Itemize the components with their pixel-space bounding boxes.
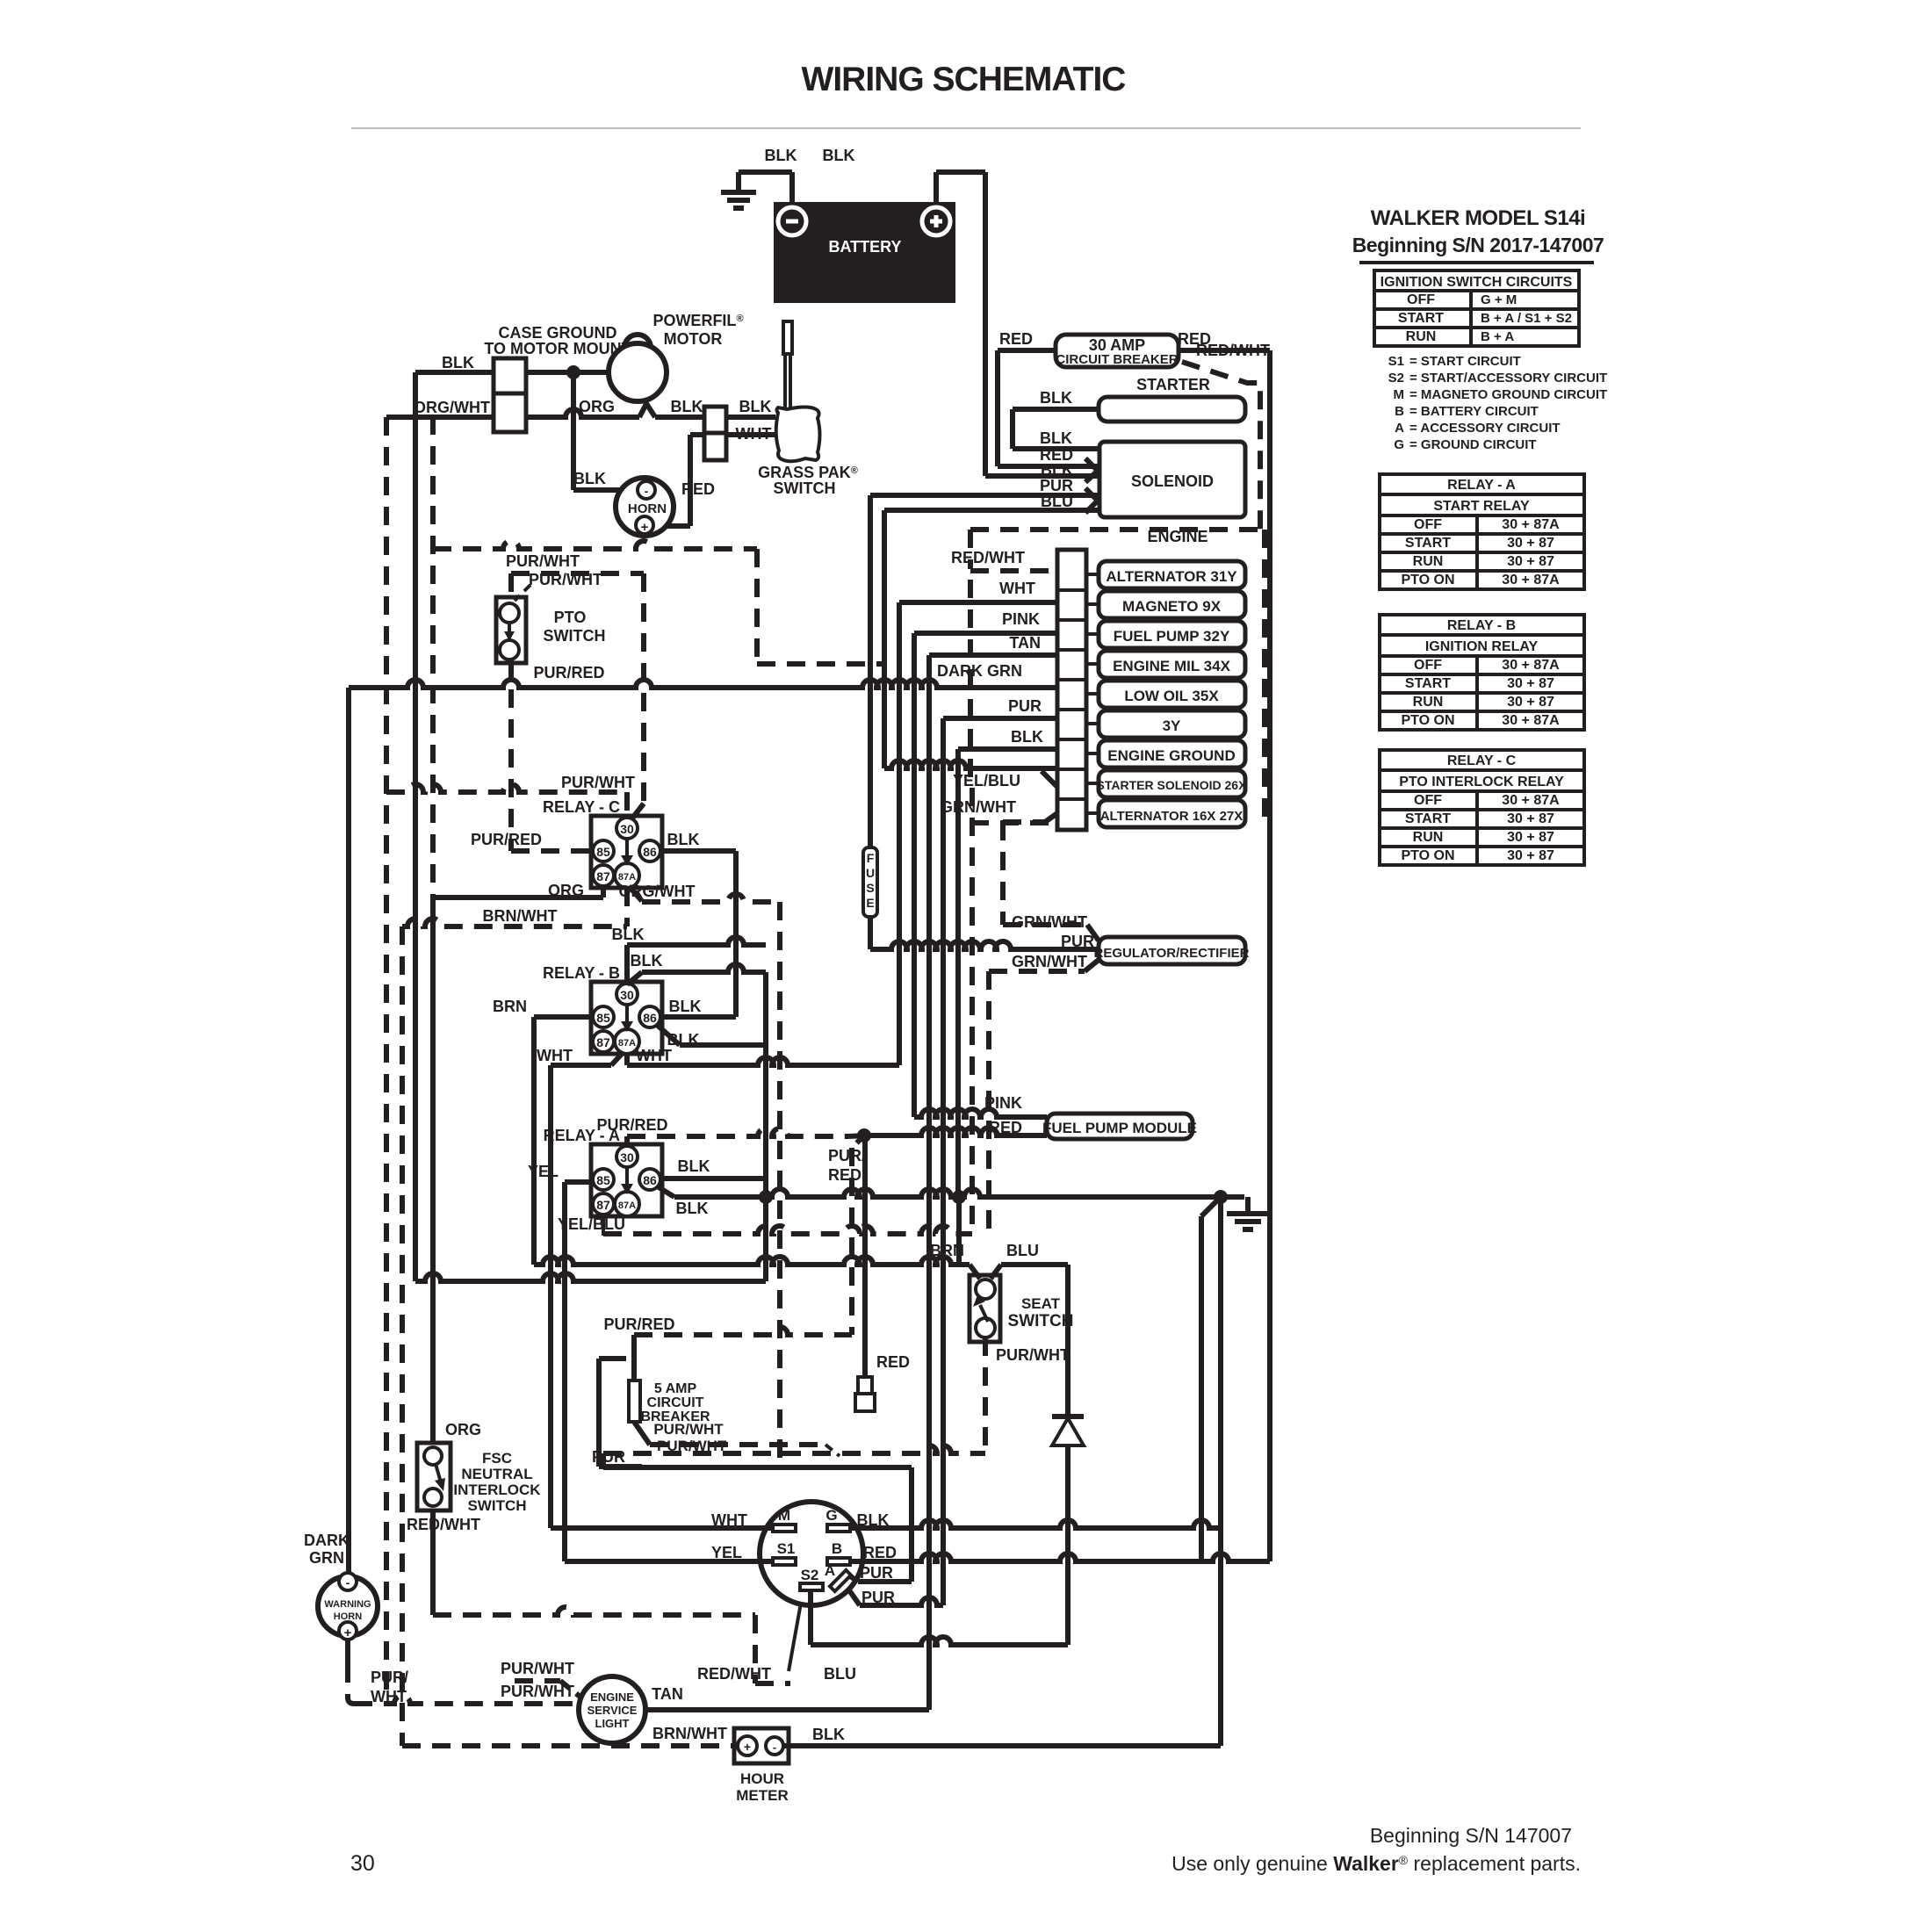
ignition switch	[760, 1502, 863, 1605]
svg-text:86: 86	[643, 845, 657, 859]
svg-text:87A: 87A	[618, 1200, 636, 1211]
svg-text:BLK: BLK	[442, 354, 474, 371]
svg-text:OFF: OFF	[1414, 517, 1442, 532]
wire BLU solenoid to engine starter-solenoid pin	[884, 508, 1099, 513]
relay B table	[1380, 615, 1584, 635]
svg-text:30 + 87: 30 + 87	[1507, 848, 1554, 863]
svg-text:87: 87	[596, 1035, 610, 1049]
svg-text:ORG: ORG	[445, 1421, 481, 1438]
wire RED horn positive	[688, 435, 693, 526]
engine pin box FUEL PUMP 32Y	[1099, 621, 1245, 648]
svg-text:YEL/BLU: YEL/BLU	[558, 1215, 625, 1233]
ignition switch circuits table	[1374, 270, 1579, 291]
svg-text:PUR/WHT: PUR/WHT	[501, 1683, 574, 1700]
svg-text:ORG: ORG	[579, 398, 615, 415]
svg-text:GRASS PAK®: GRASS PAK®	[758, 464, 858, 481]
svg-text:OFF: OFF	[1407, 292, 1435, 307]
svg-text:HORN: HORN	[628, 501, 667, 516]
wire ground bus to ignition RED row	[1201, 1197, 1221, 1216]
svg-text:WARNING: WARNING	[324, 1599, 371, 1610]
svg-text:ALTERNATOR 31Y: ALTERNATOR 31Y	[1106, 568, 1237, 585]
svg-text:OFF: OFF	[1414, 658, 1442, 673]
svg-text:PUR/RED: PUR/RED	[471, 831, 542, 848]
svg-text:86: 86	[643, 1011, 657, 1025]
harness dashed boundary	[433, 541, 757, 549]
svg-text:TAN: TAN	[652, 1685, 683, 1703]
svg-text:BLK: BLK	[678, 1157, 710, 1175]
svg-text:RUN: RUN	[1413, 554, 1444, 569]
svg-text:S2: S2	[1388, 371, 1404, 386]
svg-text:GRN/WHT: GRN/WHT	[1012, 953, 1087, 970]
svg-text:-: -	[773, 1741, 776, 1754]
svg-text:BLK: BLK	[765, 147, 797, 164]
svg-text:NEUTRAL: NEUTRAL	[461, 1466, 532, 1482]
svg-text:TAN: TAN	[1009, 634, 1041, 652]
svg-text:GRN/WHT: GRN/WHT	[1012, 913, 1087, 931]
svg-text:DARK GRN: DARK GRN	[937, 662, 1022, 680]
ignition terminal M	[773, 1525, 796, 1532]
engine pin box 3Y	[1099, 710, 1245, 738]
wire BLK to powerfil motor	[526, 370, 609, 375]
svg-text:RED: RED	[876, 1353, 910, 1371]
svg-text:BLK: BLK	[812, 1726, 845, 1743]
svg-text:IGNITION RELAY: IGNITION RELAY	[1425, 639, 1539, 654]
svg-text:SWITCH: SWITCH	[467, 1497, 526, 1514]
fuel pump module	[1047, 1114, 1193, 1139]
svg-text:BLK: BLK	[669, 998, 702, 1015]
svg-text:30 + 87A: 30 + 87A	[1502, 658, 1560, 673]
svg-text:ENGINE: ENGINE	[1147, 528, 1207, 545]
svg-text:30 + 87: 30 + 87	[1507, 811, 1554, 826]
svg-text:30 AMP: 30 AMP	[1089, 336, 1145, 354]
svg-text:PINK: PINK	[1002, 610, 1040, 628]
svg-text:RED: RED	[999, 330, 1033, 348]
fuse	[863, 847, 877, 917]
svg-text:= START CIRCUIT: = START CIRCUIT	[1409, 354, 1521, 369]
svg-text:85: 85	[596, 1011, 610, 1025]
svg-text:S1: S1	[777, 1540, 796, 1557]
ignition terminal G	[827, 1525, 850, 1532]
svg-text:S: S	[866, 881, 874, 895]
grass pak switch	[776, 407, 820, 462]
30 amp circuit breaker	[1056, 335, 1179, 367]
wire PUR solenoid to fuse	[870, 493, 1099, 498]
svg-text:RED/WHT: RED/WHT	[951, 549, 1025, 566]
svg-text:3Y: 3Y	[1163, 717, 1181, 734]
svg-text:RELAY - A: RELAY - A	[1447, 478, 1516, 493]
svg-text:TO MOTOR MOUNT: TO MOTOR MOUNT	[484, 340, 631, 357]
PTO switch	[496, 597, 526, 663]
svg-text:START: START	[1398, 311, 1444, 326]
svg-text:METER: METER	[736, 1787, 789, 1804]
hour meter	[734, 1728, 789, 1763]
svg-text:= MAGNETO GROUND CIRCUIT: = MAGNETO GROUND CIRCUIT	[1409, 387, 1607, 402]
engine pin box STARTER SOLENOID 26X	[1099, 770, 1245, 797]
svg-text:PUR/WHT: PUR/WHT	[653, 1421, 724, 1438]
svg-text:RED/WHT: RED/WHT	[407, 1516, 480, 1533]
svg-text:S2: S2	[801, 1567, 819, 1583]
svg-text:= START/ACCESSORY CIRCUIT: = START/ACCESSORY CIRCUIT	[1409, 371, 1607, 386]
svg-text:GRN/WHT: GRN/WHT	[941, 798, 1016, 816]
wire BLK battery negative to chassis ground	[789, 172, 795, 202]
svg-text:BLU: BLU	[824, 1665, 856, 1683]
svg-text:RED/WHT: RED/WHT	[1196, 342, 1270, 359]
svg-text:ENGINE: ENGINE	[590, 1690, 634, 1704]
battery	[774, 202, 955, 303]
svg-text:30 + 87A: 30 + 87A	[1502, 713, 1560, 728]
engine pin box ENGINE MIL 34X	[1099, 651, 1245, 678]
relay C table	[1380, 750, 1584, 770]
svg-text:RELAY - B: RELAY - B	[1447, 618, 1516, 633]
powerfil motor	[624, 335, 651, 350]
svg-text:PTO INTERLOCK RELAY: PTO INTERLOCK RELAY	[1399, 775, 1564, 789]
engine pin box ALTERNATOR 16X 27X	[1099, 800, 1245, 827]
wire BLK battery positive to solenoid	[934, 172, 939, 202]
svg-text:BLK: BLK	[1040, 389, 1072, 407]
svg-text:MOTOR: MOTOR	[664, 330, 723, 348]
svg-text:RELAY - B: RELAY - B	[543, 964, 620, 982]
horn	[616, 478, 674, 536]
svg-text:G: G	[1394, 437, 1404, 452]
svg-text:BLK: BLK	[1011, 728, 1043, 746]
svg-text:PTO: PTO	[554, 609, 587, 626]
earth ground symbol right	[1245, 1197, 1251, 1214]
svg-text:FSC: FSC	[482, 1450, 512, 1467]
ignition terminal A	[830, 1570, 851, 1591]
svg-text:BLK: BLK	[739, 398, 772, 415]
svg-text:BLK: BLK	[1040, 429, 1072, 447]
svg-text:PTO ON: PTO ON	[1401, 848, 1454, 863]
svg-text:30 + 87: 30 + 87	[1507, 536, 1554, 551]
ground bus	[766, 1189, 1244, 1197]
chassis ground symbol	[721, 190, 756, 195]
svg-text:RUN: RUN	[1406, 329, 1437, 344]
svg-text:BLU: BLU	[1006, 1242, 1039, 1259]
svg-text:LOW OIL 35X: LOW OIL 35X	[1124, 688, 1219, 704]
svg-text:30: 30	[620, 988, 634, 1002]
svg-text:BLK: BLK	[671, 398, 703, 415]
svg-text:PUR/WHT: PUR/WHT	[506, 552, 580, 570]
svg-text:FUEL PUMP 32Y: FUEL PUMP 32Y	[1114, 628, 1230, 645]
svg-text:PUR/: PUR/	[828, 1147, 866, 1164]
svg-text:30: 30	[620, 1150, 634, 1164]
svg-text:RED: RED	[828, 1166, 861, 1184]
svg-text:Beginning S/N 2017-147007: Beginning S/N 2017-147007	[1352, 234, 1604, 256]
svg-text:5 AMP: 5 AMP	[654, 1381, 697, 1396]
svg-text:RELAY - C: RELAY - C	[543, 798, 620, 816]
solenoid input chevrons	[1085, 458, 1098, 482]
svg-text:PUR/RED: PUR/RED	[533, 664, 604, 681]
junction PUR/RED	[857, 1128, 871, 1143]
svg-text:F: F	[867, 851, 875, 865]
svg-text:+: +	[641, 520, 649, 535]
svg-text:PTO ON: PTO ON	[1401, 713, 1454, 728]
svg-text:BATTERY: BATTERY	[829, 238, 902, 256]
svg-text:DARK: DARK	[304, 1532, 350, 1549]
diode	[1052, 1414, 1084, 1419]
battery positive terminal	[922, 207, 950, 235]
svg-text:G: G	[825, 1507, 837, 1524]
svg-text:BLK: BLK	[667, 831, 700, 848]
junction relay BLK to bus	[759, 1190, 773, 1204]
svg-text:Beginning S/N 147007: Beginning S/N 147007	[1370, 1824, 1572, 1847]
svg-text:A: A	[825, 1562, 835, 1579]
svg-text:BLK: BLK	[1041, 461, 1073, 479]
svg-text:B: B	[832, 1540, 842, 1557]
svg-text:RUN: RUN	[1413, 830, 1444, 845]
wire PINK to fuel pump module	[914, 1109, 1047, 1117]
svg-text:CASE GROUND: CASE GROUND	[498, 324, 616, 342]
svg-text:PUR/WHT: PUR/WHT	[561, 774, 635, 791]
svg-text:30 + 87A: 30 + 87A	[1502, 793, 1560, 808]
svg-text:REGULATOR/RECTIFIER: REGULATOR/RECTIFIER	[1094, 946, 1250, 961]
svg-text:RELAY - C: RELAY - C	[1447, 753, 1517, 768]
svg-text:RED: RED	[681, 480, 715, 498]
svg-text:STARTER SOLENOID 26X: STARTER SOLENOID 26X	[1097, 778, 1248, 792]
junction seat/engine ground to bus	[952, 1190, 966, 1204]
wire PUR fuse to regulator/rectifier	[868, 917, 873, 949]
svg-text:87: 87	[596, 869, 610, 883]
svg-text:SOLENOID: SOLENOID	[1131, 472, 1214, 490]
engine pin box MAGNETO 9X	[1099, 591, 1245, 618]
regulator/rectifier	[1099, 937, 1245, 964]
svg-text:30 + 87: 30 + 87	[1507, 676, 1554, 691]
engine service light	[579, 1676, 645, 1743]
svg-text:U: U	[866, 866, 875, 880]
svg-text:A: A	[1395, 421, 1404, 436]
svg-text:OFF: OFF	[1414, 793, 1442, 808]
svg-text:MAGNETO 9X: MAGNETO 9X	[1122, 598, 1222, 615]
svg-text:BRN/WHT: BRN/WHT	[652, 1725, 727, 1742]
svg-text:SERVICE: SERVICE	[588, 1704, 638, 1717]
svg-text:Use only genuine Walker® repla: Use only genuine Walker® replacement par…	[1171, 1852, 1581, 1875]
5 amp circuit breaker	[599, 1356, 626, 1361]
solenoid	[1099, 442, 1245, 517]
svg-text:HOUR: HOUR	[740, 1770, 784, 1787]
junction ground bus right	[1214, 1190, 1228, 1204]
wire BLK starter to solenoid	[1013, 407, 1099, 412]
svg-text:E: E	[866, 896, 874, 910]
svg-text:PTO ON: PTO ON	[1401, 573, 1454, 588]
svg-text:RUN: RUN	[1413, 695, 1444, 710]
svg-text:ORG/WHT: ORG/WHT	[414, 399, 490, 416]
svg-text:START: START	[1405, 536, 1451, 551]
engine harness dashed outline	[970, 527, 1265, 532]
svg-text:ENGINE GROUND: ENGINE GROUND	[1107, 747, 1235, 764]
warning horn	[318, 1576, 378, 1636]
engine pin box LOW OIL 35X	[1099, 681, 1245, 708]
svg-text:87: 87	[596, 1198, 610, 1212]
svg-text:30: 30	[620, 822, 634, 836]
svg-text:30 + 87: 30 + 87	[1507, 695, 1554, 710]
svg-text:-: -	[645, 484, 649, 498]
svg-text:= GROUND CIRCUIT: = GROUND CIRCUIT	[1409, 437, 1537, 452]
ignition terminal S2	[800, 1583, 823, 1590]
svg-text:START RELAY: START RELAY	[1433, 499, 1530, 514]
svg-text:S1: S1	[1388, 354, 1404, 369]
svg-text:BRN/WHT: BRN/WHT	[483, 907, 558, 925]
svg-text:= BATTERY CIRCUIT: = BATTERY CIRCUIT	[1409, 404, 1539, 419]
ignition terminal B	[827, 1558, 850, 1565]
wire GRN/WHT regulator lower (dashed)	[1085, 960, 1099, 971]
engine pin box ALTERNATOR 31Y	[1099, 561, 1245, 588]
battery negative terminal	[778, 207, 806, 235]
svg-text:CIRCUIT BREAKER: CIRCUIT BREAKER	[1056, 352, 1178, 367]
svg-text:WALKER MODEL S14i: WALKER MODEL S14i	[1371, 206, 1585, 230]
svg-text:30 + 87A: 30 + 87A	[1502, 573, 1560, 588]
junction motor ground	[566, 365, 580, 379]
wire WHT relay B 87A to engine pin 2	[624, 1052, 630, 1065]
svg-text:BLK: BLK	[823, 147, 855, 164]
svg-text:IGNITION SWITCH CIRCUITS: IGNITION SWITCH CIRCUITS	[1381, 275, 1573, 290]
svg-text:PUR/RED: PUR/RED	[603, 1316, 674, 1333]
svg-text:STARTER: STARTER	[1136, 376, 1210, 393]
svg-text:FUEL PUMP MODULE: FUEL PUMP MODULE	[1042, 1120, 1197, 1136]
svg-text:85: 85	[596, 845, 610, 859]
svg-text:87A: 87A	[618, 872, 636, 883]
wire BLK connector to grass pak switch	[726, 415, 775, 420]
svg-text:WHT: WHT	[636, 1047, 672, 1064]
svg-text:= ACCESSORY CIRCUIT: = ACCESSORY CIRCUIT	[1409, 421, 1561, 436]
svg-text:YEL: YEL	[528, 1163, 559, 1180]
svg-text:START: START	[1405, 811, 1451, 826]
wire BLK ground bus to ignition G and hour meter	[1218, 1197, 1223, 1746]
svg-text:G + M: G + M	[1481, 292, 1517, 307]
svg-text:B + A / S1 + S2: B + A / S1 + S2	[1481, 311, 1572, 326]
svg-text:30: 30	[350, 1851, 375, 1876]
svg-text:86: 86	[643, 1173, 657, 1187]
svg-text:85: 85	[596, 1173, 610, 1187]
svg-text:POWERFIL®: POWERFIL®	[652, 312, 743, 329]
relay A table	[1380, 474, 1584, 494]
grass pak connector	[704, 407, 726, 433]
svg-text:SEAT: SEAT	[1021, 1295, 1061, 1312]
svg-text:CIRCUIT: CIRCUIT	[647, 1395, 704, 1410]
svg-text:START: START	[1405, 676, 1451, 691]
wire BLK case ground	[415, 370, 494, 375]
relay ground vertical	[763, 972, 768, 1281]
svg-text:WHT: WHT	[537, 1047, 573, 1064]
svg-text:PUR: PUR	[592, 1448, 625, 1466]
svg-text:BLK: BLK	[676, 1200, 709, 1217]
svg-text:B + A: B + A	[1481, 329, 1514, 344]
svg-text:BLK: BLK	[573, 470, 606, 487]
wire ORG motor to grass pak connector	[526, 409, 639, 417]
svg-text:RED/WHT: RED/WHT	[697, 1665, 771, 1683]
svg-text:ENGINE MIL 34X: ENGINE MIL 34X	[1113, 658, 1230, 674]
svg-text:WIRING SCHEMATIC: WIRING SCHEMATIC	[802, 61, 1127, 98]
svg-text:SWITCH: SWITCH	[544, 627, 606, 645]
engine connector column	[1057, 550, 1086, 830]
svg-text:PUR/WHT: PUR/WHT	[529, 571, 602, 588]
svg-text:SWITCH: SWITCH	[1008, 1312, 1074, 1330]
svg-text:WHT: WHT	[999, 580, 1035, 597]
ignition terminal S1	[773, 1558, 796, 1565]
svg-text:B: B	[1395, 404, 1404, 419]
svg-text:SWITCH: SWITCH	[774, 479, 836, 497]
svg-text:PUR: PUR	[1040, 477, 1073, 494]
svg-text:PUR/RED: PUR/RED	[596, 1116, 667, 1134]
wire YEL/BLU dashed to relay A 87A	[970, 788, 975, 1234]
svg-text:ALTERNATOR 16X 27X: ALTERNATOR 16X 27X	[1100, 809, 1244, 824]
svg-text:BLK: BLK	[612, 926, 645, 943]
svg-text:BLK: BLK	[631, 952, 663, 970]
svg-text:YEL/BLU: YEL/BLU	[953, 772, 1020, 789]
svg-text:+: +	[744, 1740, 751, 1754]
svg-text:M: M	[1394, 387, 1405, 402]
wire RED circuit breaker to solenoid	[998, 348, 1056, 353]
svg-text:BRN: BRN	[493, 998, 527, 1015]
svg-text:PUR: PUR	[1061, 933, 1094, 950]
svg-text:PUR/WHT: PUR/WHT	[501, 1660, 574, 1677]
svg-text:30 + 87: 30 + 87	[1507, 554, 1554, 569]
svg-text:GRN: GRN	[309, 1549, 344, 1567]
wire RED to fuel pump module	[864, 1128, 1047, 1135]
svg-text:87A: 87A	[618, 1038, 636, 1049]
svg-text:-: -	[346, 1575, 350, 1590]
wire BRN seat switch to ground bus	[956, 1197, 962, 1265]
wire BLK junction to horn negative	[571, 372, 576, 490]
wire BLU seat switch to diode	[991, 1265, 1001, 1279]
svg-text:30 + 87: 30 + 87	[1507, 830, 1554, 845]
svg-text:INTERLOCK: INTERLOCK	[453, 1481, 541, 1498]
svg-text:PUR/: PUR/	[371, 1669, 408, 1686]
case ground link row	[415, 1273, 766, 1281]
svg-text:PUR/WHT: PUR/WHT	[996, 1346, 1070, 1364]
svg-text:M: M	[778, 1507, 790, 1524]
engine pin box ENGINE GROUND	[1099, 740, 1245, 768]
svg-text:PUR: PUR	[1008, 697, 1042, 715]
svg-text:30 + 87A: 30 + 87A	[1502, 517, 1560, 532]
svg-text:LIGHT: LIGHT	[595, 1717, 630, 1730]
svg-text:+: +	[344, 1626, 352, 1640]
